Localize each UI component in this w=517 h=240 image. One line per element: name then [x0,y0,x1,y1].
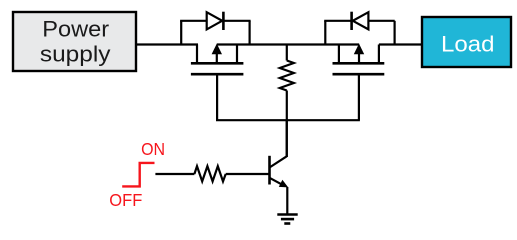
wire: power supply to Q1 drain [136,43,198,45]
svg-text:ON: ON [141,139,165,159]
wire: resistor R1 to gate rail [286,91,288,121]
svg-text:OFF: OFF [109,190,142,210]
diode D2 (body diode of Q2) [324,12,395,45]
wire: Q2 drain to load [379,43,422,45]
svg-text:supply: supply [40,41,111,66]
power supply box [13,12,136,71]
resistor R2 (base resistor, horizontal) [194,166,225,181]
wire: gate rail [216,119,360,121]
diode D1 (body diode of Q1) [180,12,251,45]
wire: emitter down to ground [286,187,288,215]
MOSFET Q2 [333,44,385,121]
wire: top rail (common source node) [217,43,359,45]
svg-text:Load: Load [441,31,495,56]
wire: signal to base resistor R2 [155,173,194,175]
ground [277,215,297,224]
wire: resistor R2 to base [226,173,269,175]
MOSFET Q1 [191,44,244,121]
wire: gate node down to collector [286,120,288,157]
transistor Q3 (NPN) [270,156,289,188]
load box [422,17,511,67]
wire: collector up to gate node [286,120,288,157]
wire: rail to resistor R1 [286,45,288,61]
svg-text:Power: Power [42,16,109,41]
on/off step signal [122,163,154,187]
resistor R1 (gate-source resistor, vertical) [280,61,294,91]
